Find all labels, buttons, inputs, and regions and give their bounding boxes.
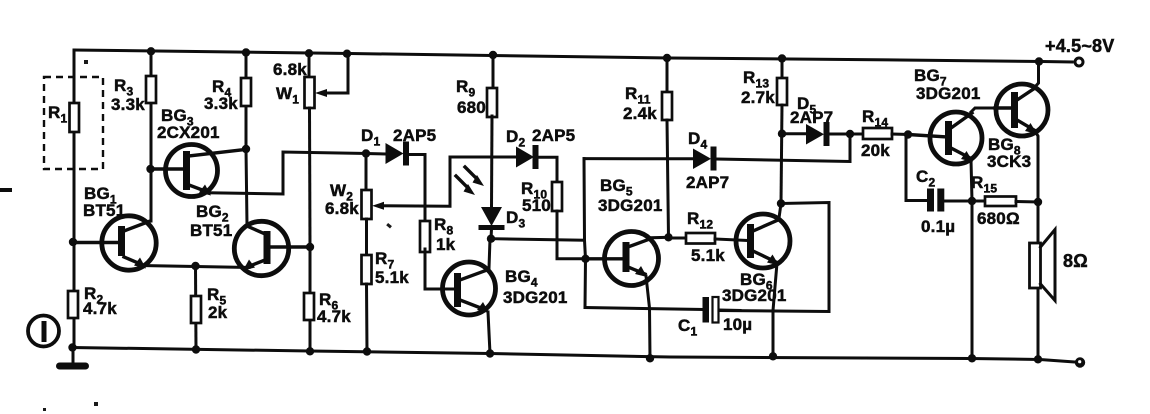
svg-text:2.7k: 2.7k	[741, 88, 775, 107]
speaker 8ohm	[1030, 202, 1088, 363]
transistor BG5 3DG201	[588, 176, 668, 362]
resistor R2	[68, 238, 117, 318]
svg-text:6.8k: 6.8k	[273, 60, 307, 79]
wire BG2 collector riser	[246, 149, 247, 225]
svg-text:2CX201: 2CX201	[157, 123, 220, 142]
svg-text:3.3k: 3.3k	[111, 95, 145, 114]
resistor R13 2.7k	[741, 54, 787, 203]
svg-text:3CK3: 3CK3	[987, 152, 1031, 171]
svg-text:2AP7: 2AP7	[686, 173, 729, 192]
resistor R11 2.4k	[623, 54, 672, 238]
wire BG3 emitter to D1 line	[208, 152, 366, 194]
svg-text:10µ: 10µ	[723, 315, 752, 334]
resistor R4	[204, 48, 251, 149]
transistor BG4 3DG201	[443, 239, 568, 358]
scan mark left edge	[0, 188, 12, 192]
transistor BG3 2CX201	[146, 106, 245, 197]
svg-text:2AP5: 2AP5	[532, 126, 575, 145]
terminal bottom right	[1075, 357, 1085, 367]
svg-text:8Ω: 8Ω	[1063, 251, 1088, 271]
diode D4 2AP7	[584, 129, 850, 192]
svg-text:3DG201: 3DG201	[722, 286, 787, 305]
resistor R3	[111, 47, 156, 221]
svg-text:0.1µ: 0.1µ	[921, 217, 955, 236]
svg-text:4.7k: 4.7k	[83, 299, 117, 318]
svg-text:510: 510	[522, 196, 551, 215]
wire top supply rail	[74, 50, 1072, 62]
svg-text:5.1k: 5.1k	[691, 246, 725, 265]
scan speckles	[43, 60, 392, 411]
svg-text:20k: 20k	[861, 141, 890, 160]
wire emitters BG1-BG2	[141, 266, 249, 268]
resistor R12 5.1k	[664, 209, 749, 265]
node BG2 base / W1 bottom	[306, 243, 314, 251]
resistor R15 680ohm	[971, 173, 1042, 228]
svg-text:BT51: BT51	[190, 221, 232, 240]
transistor BG6 3DG201	[722, 204, 790, 361]
transistor BG2 BT51	[190, 202, 308, 276]
svg-text:2.4k: 2.4k	[623, 104, 657, 123]
svg-text:5.1k: 5.1k	[375, 268, 409, 287]
svg-text:3.3k: 3.3k	[204, 94, 238, 113]
svg-text:6.8k: 6.8k	[325, 199, 359, 218]
resistor R5	[191, 262, 228, 354]
node BG6 collector / feedback loop	[718, 199, 829, 311]
svg-text:680Ω: 680Ω	[977, 209, 1020, 228]
resistor R14 20k	[861, 107, 912, 160]
svg-text:2AP7: 2AP7	[790, 108, 833, 127]
node R4/BG3 collector/BG2 collector	[242, 145, 250, 153]
transistor BG8 3CK3	[987, 57, 1048, 202]
svg-text:+4.5~8V: +4.5~8V	[1045, 36, 1114, 56]
svg-text:4.7k: 4.7k	[317, 307, 351, 326]
ground	[56, 343, 89, 369]
resistor R1 (dashed box sensor)	[44, 77, 103, 169]
light arrows into D3	[456, 167, 484, 195]
resistor R9 680	[456, 51, 497, 208]
meter I (circle symbol bottom left)	[28, 316, 59, 347]
svg-text:3DG201: 3DG201	[598, 196, 663, 215]
diode D5 2AP7	[778, 94, 864, 146]
terminal +V	[1075, 58, 1083, 66]
resistor R6	[304, 248, 351, 355]
svg-text:3DG201: 3DG201	[916, 84, 981, 103]
wire left vertical branch	[73, 50, 76, 348]
transistor BG1 BT51	[76, 184, 156, 270]
photodiode D3	[479, 207, 526, 243]
potentiometer W2 6.8k	[325, 154, 516, 257]
resistor R8 1k	[420, 215, 456, 289]
diode D1 2AP5	[361, 126, 436, 221]
svg-text:1k: 1k	[436, 235, 456, 254]
svg-text:BT51: BT51	[83, 201, 125, 220]
capacitor C1 10u	[585, 297, 752, 339]
capacitor C2 0.1u	[906, 136, 972, 236]
node BG5 base riser	[492, 159, 590, 308]
svg-text:2AP5: 2AP5	[393, 126, 436, 145]
svg-text:3DG201: 3DG201	[503, 288, 568, 307]
transistor BG7 3DG201	[908, 66, 995, 362]
svg-text:680: 680	[457, 98, 486, 117]
wire bottom ground rail	[72, 348, 1075, 363]
potentiometer W1 6.8k	[273, 49, 351, 248]
diode D2 2AP5	[506, 126, 575, 183]
resistor R7 5.1k	[362, 249, 410, 356]
resistor R10 510	[521, 179, 585, 259]
svg-text:2k: 2k	[208, 303, 228, 322]
